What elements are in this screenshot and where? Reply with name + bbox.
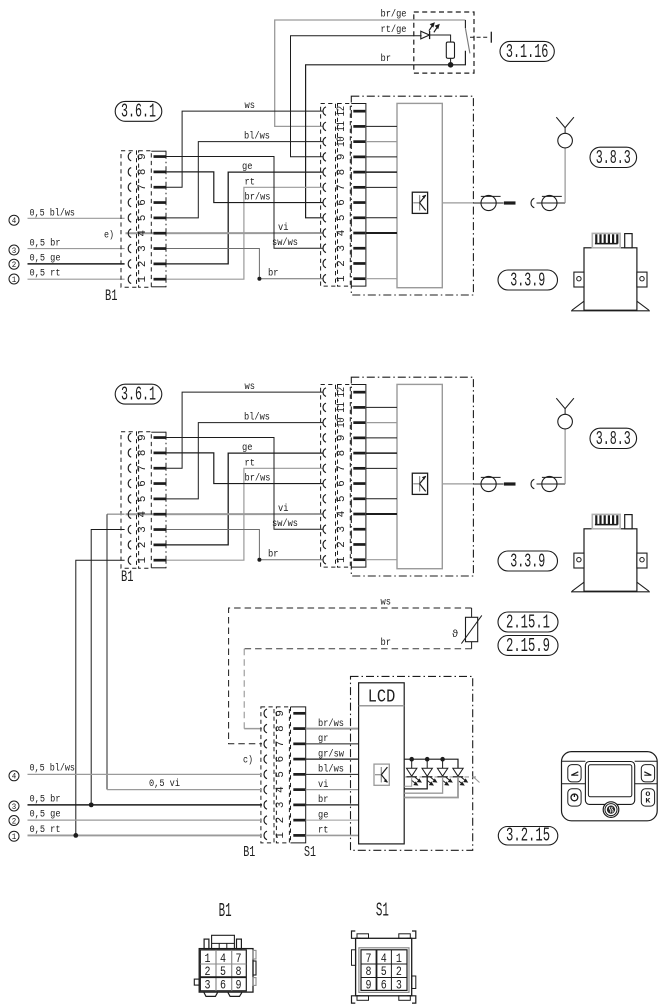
code 3.2.15 [498, 827, 558, 846]
svg-text:0,5 ge: 0,5 ge [30, 809, 61, 820]
junction LED 3 [440, 757, 445, 762]
svg-text:3: 3 [205, 978, 211, 993]
X12 pin 5 terminal [353, 497, 365, 500]
code 3.6.1 (top) [115, 101, 162, 121]
svg-text:5: 5 [137, 496, 149, 503]
wire br/ws B1.8-X12.6 [166, 172, 323, 203]
svg-text:2: 2 [396, 964, 402, 979]
svg-text:2: 2 [137, 261, 149, 268]
X12 pin 7 socket [323, 464, 326, 473]
svg-text:9: 9 [336, 435, 348, 442]
X12 pin 1 socket [323, 274, 326, 283]
svg-text:0,5 rt: 0,5 rt [30, 268, 61, 279]
wire unit output [442, 483, 473, 485]
temperature sensor (thermistor) [466, 617, 478, 641]
wire X12 pin 1 to unit [366, 278, 397, 280]
connector B1: socket housing (dashed) [121, 151, 137, 287]
svg-text:0,5 bl/ws: 0,5 bl/ws [30, 762, 76, 774]
X12 pin 11 terminal [353, 125, 365, 128]
X12 pin 11 socket [323, 122, 326, 131]
wire LED to resistor [430, 35, 451, 42]
X12 pin 9 socket [323, 434, 326, 443]
terminal 3 wire 0,5 br [9, 245, 19, 255]
svg-text:2: 2 [275, 817, 287, 824]
svg-text:2: 2 [205, 964, 211, 979]
svg-text:5: 5 [381, 964, 387, 979]
connector B1: pin-number housing (dashed) [139, 432, 152, 568]
LED supply rail [404, 759, 458, 768]
B1 view pin grid [200, 950, 246, 991]
X12 pin 8 terminal [353, 452, 365, 455]
svg-text:2.15.9: 2.15.9 [506, 635, 550, 657]
B1/S1 pin 1 terminal [293, 834, 305, 837]
B1 pin 6 terminal [154, 201, 166, 204]
B1 pin 5 socket [128, 495, 131, 504]
connector B1 face view housing [199, 949, 253, 993]
B1/S1 pin 5 terminal [293, 773, 305, 776]
B1/S1 pin 1 socket [264, 831, 267, 840]
X12 pin 2 socket [323, 259, 326, 268]
wire LED 2 return [404, 777, 427, 789]
svg-text:3.8.3: 3.8.3 [596, 147, 631, 169]
module tab [625, 515, 632, 529]
control module icon [571, 514, 650, 591]
B1/S1 pin 6 socket [264, 755, 267, 764]
svg-text:3.8.3: 3.8.3 [596, 428, 631, 450]
svg-text:7: 7 [137, 184, 149, 191]
svg-text:2: 2 [12, 816, 17, 826]
wire X12 pin 5 to unit [366, 217, 397, 219]
X12 pin 10 socket [323, 137, 326, 146]
svg-text:ge: ge [242, 162, 253, 173]
svg-text:2: 2 [137, 542, 149, 549]
wire ws (dashed) sensor to B1.7 [471, 608, 473, 617]
svg-text:S1: S1 [304, 845, 316, 861]
wire br (dashed) sensor to B1.8 [471, 642, 473, 649]
connector B1: pin strip outline [151, 150, 166, 152]
svg-text:3: 3 [396, 978, 402, 993]
svg-text:vi: vi [278, 222, 289, 234]
B1 pin 8 socket [128, 449, 131, 458]
svg-text:br/ws: br/ws [318, 718, 344, 730]
control unit boundary (dash-dot box) [351, 676, 473, 850]
wire X12 pin 10 to unit [366, 422, 397, 424]
svg-text:vi: vi [318, 779, 328, 791]
B1 pin 1 terminal [154, 278, 166, 281]
X12 pin 6 socket [323, 479, 326, 488]
X12 pin 5 socket [323, 213, 326, 222]
B1 pin 6 socket [128, 479, 131, 488]
wire X12 pin 5 to unit [366, 498, 397, 500]
module left ear [574, 272, 584, 287]
B1 pin 5 terminal [154, 217, 166, 220]
svg-text:1: 1 [336, 556, 348, 563]
svg-text:3: 3 [137, 526, 149, 533]
B1/S1 pin 9 socket [264, 709, 267, 718]
B1 view bottom feet [204, 992, 218, 996]
operating unit icon [562, 752, 658, 821]
wire rt B1.1-X12.7 [166, 468, 323, 560]
svg-text:4: 4 [275, 786, 287, 793]
wire vi B1.4-X12.4 [126, 513, 323, 515]
B1 pin 3 terminal [154, 528, 166, 531]
svg-text:rt: rt [318, 826, 328, 837]
svg-text:ws: ws [245, 101, 256, 112]
svg-text:br: br [318, 794, 328, 806]
svg-text:bl/ws: bl/ws [318, 764, 344, 776]
wire X12 pin 10 to unit [366, 141, 397, 143]
module right ear [637, 272, 647, 287]
resistor [446, 42, 454, 58]
connector B1: socket housing (dashed) [121, 432, 137, 568]
svg-text:11: 11 [336, 402, 348, 413]
svg-text:5: 5 [336, 215, 348, 222]
terminal 2 wire 0,5 ge [9, 259, 19, 269]
code 2.15.1 [498, 612, 558, 632]
code 3.3.9 (middle) [498, 551, 558, 571]
junction LED 2 [425, 757, 430, 762]
svg-text:gr: gr [318, 734, 328, 745]
module right ear [637, 553, 647, 568]
terminal 3 wire 0,5 br (lower) [9, 801, 19, 811]
svg-text:6: 6 [137, 480, 149, 487]
connector B1: pin strip outline [151, 431, 166, 433]
connector B1: pin-number housing (dashed) [139, 151, 152, 287]
LCD unit [359, 683, 405, 844]
code 3.8.3 (middle) [590, 428, 637, 448]
X12 pin 3 terminal [353, 247, 365, 250]
X12 pin 12 socket [323, 107, 326, 116]
connector X12: pin strip outline [351, 104, 366, 287]
connector X12: pin strip outline [351, 385, 366, 568]
terminal 4 wire 0,5 bl/ws (lower) [9, 771, 19, 781]
indicator unit box 3.1.16 (dashed) [414, 12, 474, 73]
wire ge B1.2-X12.8 [166, 453, 323, 545]
X12 pin 2 terminal [353, 543, 365, 546]
wire X12 pin 4 to unit [366, 513, 397, 515]
backlight dashed line [405, 776, 477, 778]
svg-text:4: 4 [137, 511, 149, 518]
wire X12 pin 4 to unit [366, 232, 397, 234]
svg-text:e): e) [104, 229, 114, 241]
LED indicator [421, 31, 430, 39]
coax connector plug (circle) [481, 476, 496, 491]
B1 view top latch [212, 935, 235, 948]
svg-text:5: 5 [336, 496, 348, 503]
operating unit center button [603, 802, 619, 818]
connector blade [504, 201, 516, 204]
svg-text:B1: B1 [121, 568, 134, 586]
svg-text:0,5 br: 0,5 br [30, 793, 61, 805]
svg-text:rt: rt [245, 177, 256, 188]
coax connector plug (circle) [481, 195, 496, 210]
X12 pin 1 socket [323, 555, 326, 564]
svg-text:7: 7 [137, 465, 149, 472]
svg-text:11: 11 [336, 121, 348, 132]
svg-text:10: 10 [336, 417, 348, 428]
wire X12 pin 9 to unit [366, 437, 397, 439]
svg-text:ge: ge [318, 810, 328, 821]
B1 pin 2 socket [128, 541, 131, 550]
svg-text:4: 4 [336, 229, 348, 236]
X12 pin 8 socket [323, 449, 326, 458]
terminal 1 wire 0,5 rt [9, 274, 19, 284]
S1 view pin grid [359, 948, 409, 993]
LED arrows [429, 23, 439, 32]
svg-text:3.3.9: 3.3.9 [510, 550, 545, 572]
B1/S1 pin 5 socket [264, 770, 267, 779]
svg-text:8: 8 [236, 964, 242, 979]
svg-text:1: 1 [137, 276, 149, 283]
svg-text:B1: B1 [105, 287, 118, 305]
svg-text:ws: ws [245, 382, 256, 393]
connector S1: boundary (dashed) [290, 707, 292, 843]
X12 pin 11 socket [323, 403, 326, 412]
svg-text:6: 6 [275, 756, 287, 763]
svg-text:6: 6 [381, 978, 387, 993]
terminal 4 wire 0,5 bl/ws [9, 215, 19, 225]
svg-text:6: 6 [220, 978, 226, 993]
amplifier symbol U (transistor in box) [412, 192, 427, 213]
wire middle B1.4 down (vi) [107, 513, 125, 515]
B1 pin 1 socket [128, 275, 131, 284]
svg-text:4: 4 [12, 216, 17, 226]
B1/S1 pin 2 terminal [293, 819, 305, 822]
svg-text:br: br [381, 637, 392, 649]
code 2.15.9 [498, 636, 558, 656]
wire bl/ws S1.5 to LCD [306, 773, 359, 775]
wire unit output [442, 202, 473, 204]
svg-text:3: 3 [336, 526, 348, 533]
wire X12 pin 1 to unit [366, 559, 397, 561]
X12 pin 4 terminal [353, 232, 365, 235]
B1/S1 pin 3 socket [264, 801, 267, 810]
X12 pin 4 socket [323, 510, 326, 519]
wire X12 pin 7 to unit [366, 467, 397, 469]
wire sw/ws B1.9-X12.3 [166, 157, 323, 249]
wire ge S1.2 to LCD [306, 819, 359, 821]
wire br [306, 51, 466, 218]
X12 pin 9 socket [323, 153, 326, 162]
B1 pin 2 terminal [154, 263, 166, 266]
svg-text:9: 9 [275, 710, 287, 717]
B1 pin 3 socket [128, 244, 131, 253]
LED 4 [453, 768, 463, 776]
receiver internal unit (gray box) [397, 384, 442, 568]
module feet [572, 582, 584, 591]
svg-text:9: 9 [236, 978, 242, 993]
X12 pin 6 terminal [353, 482, 365, 485]
svg-text:rt: rt [245, 458, 256, 469]
B1/S1 pin 3 terminal [293, 804, 305, 807]
svg-text:8: 8 [137, 450, 149, 457]
module tab [625, 234, 632, 248]
connector X12: socket housing (dashed) [321, 104, 336, 287]
svg-text:3: 3 [336, 245, 348, 252]
code 3.8.3 (top) [590, 147, 637, 167]
B1 pin 9 terminal [154, 155, 166, 158]
svg-text:3.6.1: 3.6.1 [121, 101, 156, 123]
B1 pin 9 socket [128, 152, 131, 161]
svg-text:LCD: LCD [368, 687, 396, 708]
svg-text:1: 1 [12, 275, 17, 285]
svg-text:8: 8 [137, 169, 149, 176]
svg-text:12: 12 [336, 387, 348, 398]
B1/S1 pin 7 socket [264, 740, 267, 749]
X12 pin 4 socket [323, 229, 326, 238]
svg-text:3.2.15: 3.2.15 [506, 824, 550, 846]
svg-text:6: 6 [336, 480, 348, 487]
svg-text:2.15.1: 2.15.1 [506, 611, 550, 633]
B1/S1 pin 8 socket [264, 724, 267, 733]
wire rt B1.1-X12.7 [166, 187, 323, 279]
B1 pin 6 terminal [154, 482, 166, 485]
X12 pin 10 terminal [353, 140, 365, 143]
svg-text:sw/ws: sw/ws [272, 518, 298, 530]
amplifier symbol U (transistor in box) [412, 473, 427, 494]
wire gr/sw S1.6 to LCD [306, 758, 359, 760]
amplifier symbol (LCD) [374, 764, 389, 785]
B1/S1 pin 2 socket [264, 816, 267, 825]
B1 pin 3 terminal [154, 247, 166, 250]
B1 pin 4 terminal [154, 232, 166, 235]
X12 pin 12 terminal [353, 110, 365, 113]
svg-text:3.3.9: 3.3.9 [510, 269, 545, 291]
svg-text:0,5 rt: 0,5 rt [30, 825, 61, 836]
wire middle B1.1 down (rt) [76, 560, 125, 835]
wire br/ws S1.8 to LCD [306, 728, 359, 730]
wire LED 3 return [404, 777, 442, 793]
svg-text:1: 1 [336, 275, 348, 282]
svg-text:6: 6 [336, 199, 348, 206]
svg-text:7: 7 [336, 465, 348, 472]
wire X12 pin 8 to unit [366, 171, 397, 173]
B1 pin 7 terminal [154, 467, 166, 470]
X12 pin 11 terminal [353, 406, 365, 409]
code 3.1.16 [500, 41, 554, 61]
X12 pin 2 socket [323, 540, 326, 549]
wire X12 pin 11 to unit [366, 406, 397, 408]
X12 pin 9 terminal [353, 156, 365, 159]
B1/S1 pin 4 terminal [293, 788, 305, 791]
wire LED 4 return [404, 777, 458, 798]
svg-text:bl/ws: bl/ws [244, 412, 270, 424]
X12 pin 1 terminal [353, 277, 365, 280]
wire vi B1.4-X12.4 [126, 232, 323, 234]
code 3.3.9 (top) [498, 270, 558, 290]
X12 pin 8 socket [323, 168, 326, 177]
connector B1/S1: pin-number housing (dashed) [276, 707, 289, 843]
receiver unit boundary (dash-dot box) [351, 377, 473, 576]
B1 view right tabs [253, 950, 256, 959]
B1 pin 4 socket [128, 229, 131, 238]
B1 pin 9 terminal [154, 436, 166, 439]
wire bl/ws B1.5-X12.10 [166, 142, 323, 218]
svg-text:4: 4 [137, 230, 149, 237]
LED 1 [407, 768, 417, 776]
svg-text:9: 9 [366, 978, 372, 993]
B1 pin 5 terminal [154, 498, 166, 501]
svg-text:3: 3 [137, 245, 149, 252]
X12 pin 8 terminal [353, 171, 365, 174]
B1/S1 pin 8 terminal [293, 727, 305, 730]
wire to antenna plug [473, 202, 481, 204]
svg-text:K: K [645, 798, 650, 805]
svg-text:3: 3 [12, 802, 17, 812]
svg-text:2: 2 [336, 260, 348, 267]
wire rt/ge [291, 36, 422, 157]
svg-text:B1: B1 [219, 900, 232, 922]
svg-text:rt/ge: rt/ge [381, 24, 407, 36]
switch contact [465, 28, 470, 53]
B1 pin 4 socket [128, 510, 131, 519]
wire ws B1.7-X12.12 [166, 392, 323, 468]
coax socket arc [531, 198, 534, 207]
svg-text:ge: ge [242, 443, 253, 454]
connector B1/S1: socket housing (dashed) [261, 707, 274, 843]
wire middle B1.3 down (br) [91, 530, 124, 805]
X12 pin 12 socket [323, 388, 326, 397]
B1/S1 pin 4 socket [264, 785, 267, 794]
X12 pin 3 socket [323, 244, 326, 253]
connector X12: pin-number housing (dashed) [338, 385, 351, 568]
connector blade [504, 482, 516, 485]
svg-text:8: 8 [336, 169, 348, 176]
X12 pin 12 terminal [353, 391, 365, 394]
X12 pin 7 terminal [353, 186, 365, 189]
B1 pin 8 terminal [154, 171, 166, 174]
B1 pin 7 socket [128, 464, 131, 473]
code 3.6.1 (middle) [115, 384, 162, 404]
connector X12: socket housing (dashed) [321, 385, 336, 568]
antenna A1 [564, 148, 566, 203]
X12 pin 6 terminal [353, 201, 365, 204]
X12 pin 7 terminal [353, 467, 365, 470]
svg-text:8: 8 [366, 964, 372, 979]
X12 pin 10 socket [323, 418, 326, 427]
connector X12: pin-number housing (dashed) [338, 104, 351, 287]
svg-text:br/ge: br/ge [381, 8, 407, 20]
X12 pin 10 terminal [353, 421, 365, 424]
wire ws B1.7-X12.12 [166, 111, 323, 187]
B1 pin 7 terminal [154, 186, 166, 189]
svg-text:sw/ws: sw/ws [272, 237, 298, 249]
X12 pin 9 terminal [353, 437, 365, 440]
X12 pin 1 terminal [353, 558, 365, 561]
wire br B1.3-X12.1 [166, 249, 323, 279]
svg-text:3: 3 [12, 246, 17, 256]
svg-text:0,5 vi: 0,5 vi [149, 778, 180, 790]
terminal 2 wire 0,5 ge (lower) [9, 816, 19, 826]
svg-text:0,5 bl/ws: 0,5 bl/ws [30, 207, 76, 219]
svg-text:3.1.16: 3.1.16 [506, 41, 549, 63]
X12 pin 2 terminal [353, 262, 365, 265]
wire X12 pin 7 to unit [366, 186, 397, 188]
module feet [572, 301, 584, 310]
X12 pin 5 terminal [353, 216, 365, 219]
wire br B1.3-X12.1 [166, 530, 323, 560]
wire X12 pin 11 to unit [366, 125, 397, 127]
svg-text:5: 5 [137, 215, 149, 222]
receiver unit boundary (dash-dot box) [351, 96, 473, 295]
B1 pin 7 socket [128, 183, 131, 192]
svg-text:3: 3 [275, 802, 287, 809]
svg-text:gr/sw: gr/sw [318, 748, 345, 760]
junction LED 1 [409, 757, 414, 762]
svg-text:4: 4 [336, 510, 348, 517]
svg-text:c): c) [243, 754, 253, 766]
svg-text:B1: B1 [243, 845, 255, 861]
